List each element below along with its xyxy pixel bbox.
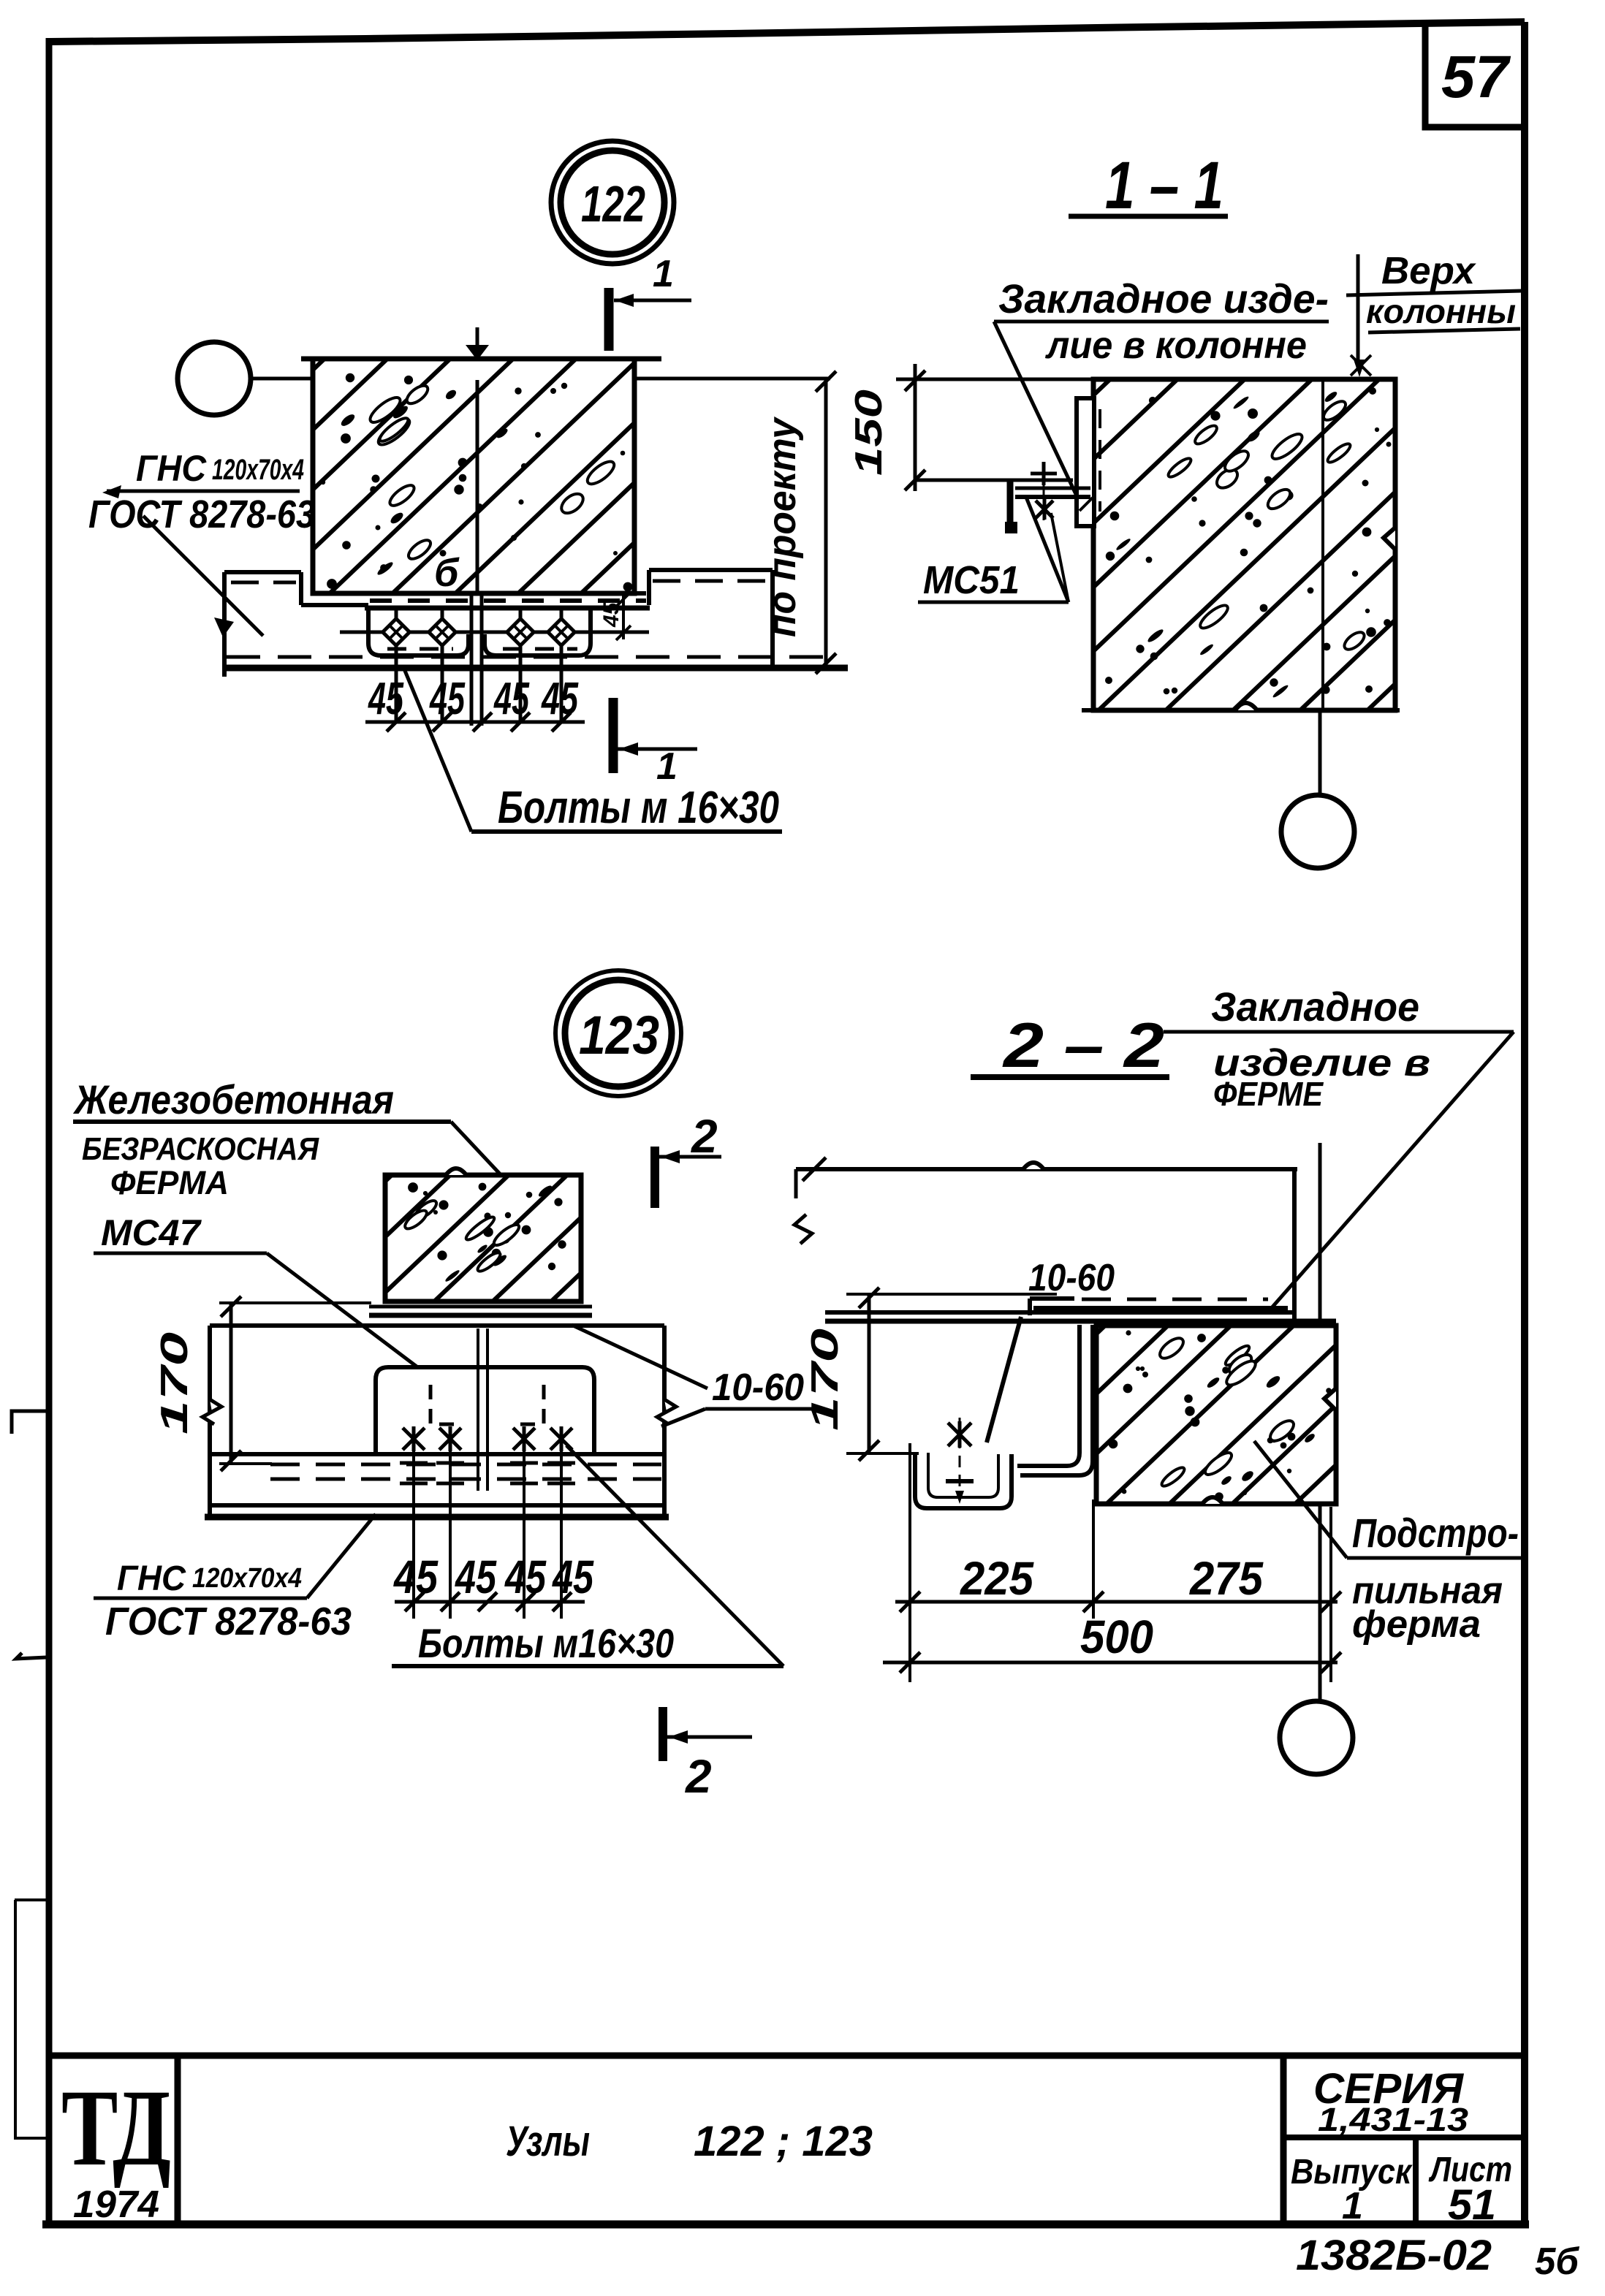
svg-text:45: 45 bbox=[454, 1551, 497, 1603]
svg-text:ГОСТ 8278-63: ГОСТ 8278-63 bbox=[105, 1600, 352, 1643]
svg-text:45: 45 bbox=[368, 674, 404, 724]
svg-text:1974: 1974 bbox=[73, 2183, 159, 2226]
svg-text:120х70х4: 120х70х4 bbox=[212, 454, 304, 486]
svg-text:170: 170 bbox=[153, 1332, 196, 1434]
svg-text:122 ; 123: 122 ; 123 bbox=[694, 2118, 873, 2165]
svg-text:500: 500 bbox=[1080, 1611, 1153, 1663]
svg-text:ГНС: ГНС bbox=[136, 448, 207, 489]
svg-text:1: 1 bbox=[653, 253, 674, 295]
svg-text:51: 51 bbox=[1448, 2181, 1496, 2229]
svg-text:БЕЗРАСКОСНАЯ: БЕЗРАСКОСНАЯ bbox=[82, 1131, 319, 1167]
svg-text:лие в колонне: лие в колонне bbox=[1044, 324, 1307, 367]
svg-text:10-60: 10-60 bbox=[712, 1366, 804, 1409]
svg-text:1: 1 bbox=[656, 745, 678, 788]
svg-text:2: 2 bbox=[691, 1110, 718, 1163]
svg-text:1 – 1: 1 – 1 bbox=[1105, 148, 1223, 223]
svg-text:120х70х4: 120х70х4 bbox=[192, 1563, 302, 1594]
svg-text:225: 225 bbox=[960, 1552, 1034, 1605]
svg-text:ГНС: ГНС bbox=[117, 1559, 186, 1598]
svg-text:45: 45 bbox=[541, 674, 580, 724]
svg-text:123: 123 bbox=[579, 1005, 659, 1065]
svg-text:Закладное: Закладное bbox=[1211, 984, 1419, 1030]
svg-text:57: 57 bbox=[1441, 44, 1511, 110]
svg-text:45: 45 bbox=[392, 1551, 439, 1603]
svg-text:ТД: ТД bbox=[61, 2067, 171, 2189]
svg-text:Узлы: Узлы bbox=[506, 2118, 590, 2165]
svg-text:45: 45 bbox=[429, 674, 466, 724]
svg-text:Болты м16×30: Болты м16×30 bbox=[418, 1620, 674, 1666]
svg-text:1: 1 bbox=[1342, 2185, 1363, 2227]
svg-text:122: 122 bbox=[581, 175, 645, 232]
svg-text:1,431-13: 1,431-13 bbox=[1318, 2101, 1468, 2138]
svg-text:Подстро-: Подстро- bbox=[1352, 1510, 1519, 1556]
svg-text:ФЕРМА: ФЕРМА bbox=[110, 1164, 229, 1201]
svg-text:45: 45 bbox=[493, 674, 530, 724]
svg-text:колонны: колонны bbox=[1366, 292, 1516, 330]
svg-text:150: 150 bbox=[848, 389, 890, 476]
svg-text:б: б bbox=[434, 551, 460, 595]
svg-text:Железобетонная: Железобетонная bbox=[72, 1076, 394, 1122]
svg-text:Закладное изде-: Закладное изде- bbox=[998, 275, 1329, 322]
svg-text:170: 170 bbox=[804, 1328, 846, 1431]
svg-text:45: 45 bbox=[599, 601, 623, 628]
svg-text:275: 275 bbox=[1189, 1552, 1264, 1605]
svg-text:Верх: Верх bbox=[1381, 250, 1476, 292]
svg-text:Болты м 16×30: Болты м 16×30 bbox=[498, 783, 779, 833]
svg-text:45: 45 bbox=[551, 1551, 594, 1603]
svg-text:1382Б-02: 1382Б-02 bbox=[1296, 2232, 1492, 2279]
svg-text:МС51: МС51 bbox=[923, 558, 1020, 602]
svg-text:ФЕРМЕ: ФЕРМЕ bbox=[1213, 1075, 1324, 1113]
svg-text:по проекту: по проекту bbox=[760, 416, 804, 637]
svg-text:2: 2 bbox=[685, 1750, 712, 1803]
svg-text:МС47: МС47 bbox=[101, 1212, 202, 1253]
svg-text:2 – 2: 2 – 2 bbox=[1002, 1011, 1164, 1081]
svg-text:45: 45 bbox=[504, 1551, 547, 1603]
svg-text:ферма: ферма bbox=[1352, 1603, 1481, 1646]
svg-text:ГОСТ 8278-63: ГОСТ 8278-63 bbox=[88, 493, 315, 536]
svg-text:5б: 5б bbox=[1535, 2240, 1580, 2283]
